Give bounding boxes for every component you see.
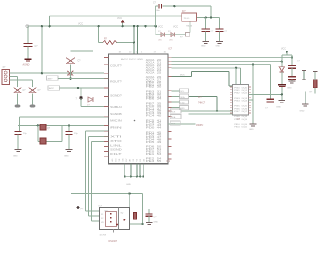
svg-text:SUBLN: SUBLN xyxy=(110,106,122,109)
svg-text:GND: GND xyxy=(201,45,206,47)
svg-text:78L05: 78L05 xyxy=(186,26,193,28)
svg-text:MCK: MCK xyxy=(180,75,185,77)
svg-text:PB6: PB6 xyxy=(146,99,156,101)
svg-text:SCK: SCK xyxy=(171,111,176,113)
svg-text:SGND?: SGND? xyxy=(110,95,122,98)
svg-text:AIN?: AIN? xyxy=(48,77,54,80)
svg-text:SGND: SGND xyxy=(110,149,122,152)
svg-text:VCC: VCC xyxy=(281,49,286,51)
svg-text:DS1307: DS1307 xyxy=(109,240,118,243)
svg-text:RST: RST xyxy=(171,123,176,125)
svg-text:VCC: VCC xyxy=(158,26,163,29)
svg-text:PB10: PB10 xyxy=(234,124,240,126)
svg-text:PB2: PB2 xyxy=(146,87,156,89)
svg-text:PE3: PE3 xyxy=(146,161,156,163)
svg-text:IC?: IC? xyxy=(198,96,202,99)
svg-text:SDA: SDA xyxy=(180,96,185,99)
svg-text:PE1: PE1 xyxy=(146,154,156,156)
svg-text:PB11: PB11 xyxy=(234,127,240,129)
svg-text:SGNDB: SGNDB xyxy=(110,113,122,116)
svg-text:AIN?: AIN? xyxy=(49,87,55,90)
svg-text:X2: X2 xyxy=(101,218,103,220)
svg-text:16MHz: 16MHz xyxy=(196,125,204,127)
svg-text:SDA: SDA xyxy=(171,116,176,119)
svg-text:XTO: XTO xyxy=(110,140,122,143)
svg-text:VCC: VCC xyxy=(117,17,122,20)
svg-text:X1: X1 xyxy=(101,214,103,216)
svg-text:100n: 100n xyxy=(155,10,161,12)
svg-text:LED: LED xyxy=(169,39,173,41)
svg-text:FILT: FILT xyxy=(110,153,123,156)
svg-text:GND: GND xyxy=(249,129,254,131)
svg-text:LED: LED xyxy=(158,39,162,41)
svg-text:GND: GND xyxy=(126,184,131,186)
svg-text:VCC: VCC xyxy=(78,22,83,25)
svg-text:ROUT?: ROUT? xyxy=(110,81,122,84)
svg-text:74HC?: 74HC? xyxy=(198,103,206,105)
svg-text:DQ10: DQ10 xyxy=(242,124,248,126)
svg-text:VCC: VCC xyxy=(173,26,178,29)
svg-text:78L05: 78L05 xyxy=(184,18,191,20)
svg-text:TXD: TXD xyxy=(180,102,185,104)
svg-text:PC4: PC4 xyxy=(146,116,156,118)
svg-text:AGND: AGND xyxy=(23,64,30,67)
svg-text:AVCC DVCC GND: AVCC DVCC GND xyxy=(121,58,144,61)
svg-text:GND: GND xyxy=(13,156,18,158)
svg-text:GND: GND xyxy=(300,111,305,113)
svg-text:32.768: 32.768 xyxy=(100,234,107,236)
svg-text:GND: GND xyxy=(64,156,69,158)
svg-text:COUT?: COUT? xyxy=(110,65,122,68)
svg-text:GND: GND xyxy=(276,107,281,109)
svg-text:RXD: RXD xyxy=(180,108,185,110)
svg-text:MICIN: MICIN xyxy=(110,120,122,123)
svg-text:DQ11: DQ11 xyxy=(242,127,248,129)
svg-text:OSC: OSC xyxy=(104,211,109,213)
svg-text:PD0: PD0 xyxy=(146,128,156,130)
svg-text:LINL: LINL xyxy=(110,145,123,148)
svg-text:AG: AG xyxy=(111,158,114,161)
svg-text:ADC5A: ADC5A xyxy=(146,71,155,74)
svg-text:GND: GND xyxy=(216,45,221,47)
svg-text:PD5: PD5 xyxy=(146,142,156,144)
svg-text:XTI: XTI xyxy=(110,136,122,139)
svg-text:RIN: RIN xyxy=(110,127,122,130)
svg-text:GND: GND xyxy=(287,88,292,90)
svg-text:DG: DG xyxy=(116,158,118,161)
svg-text:GND: GND xyxy=(154,222,159,224)
